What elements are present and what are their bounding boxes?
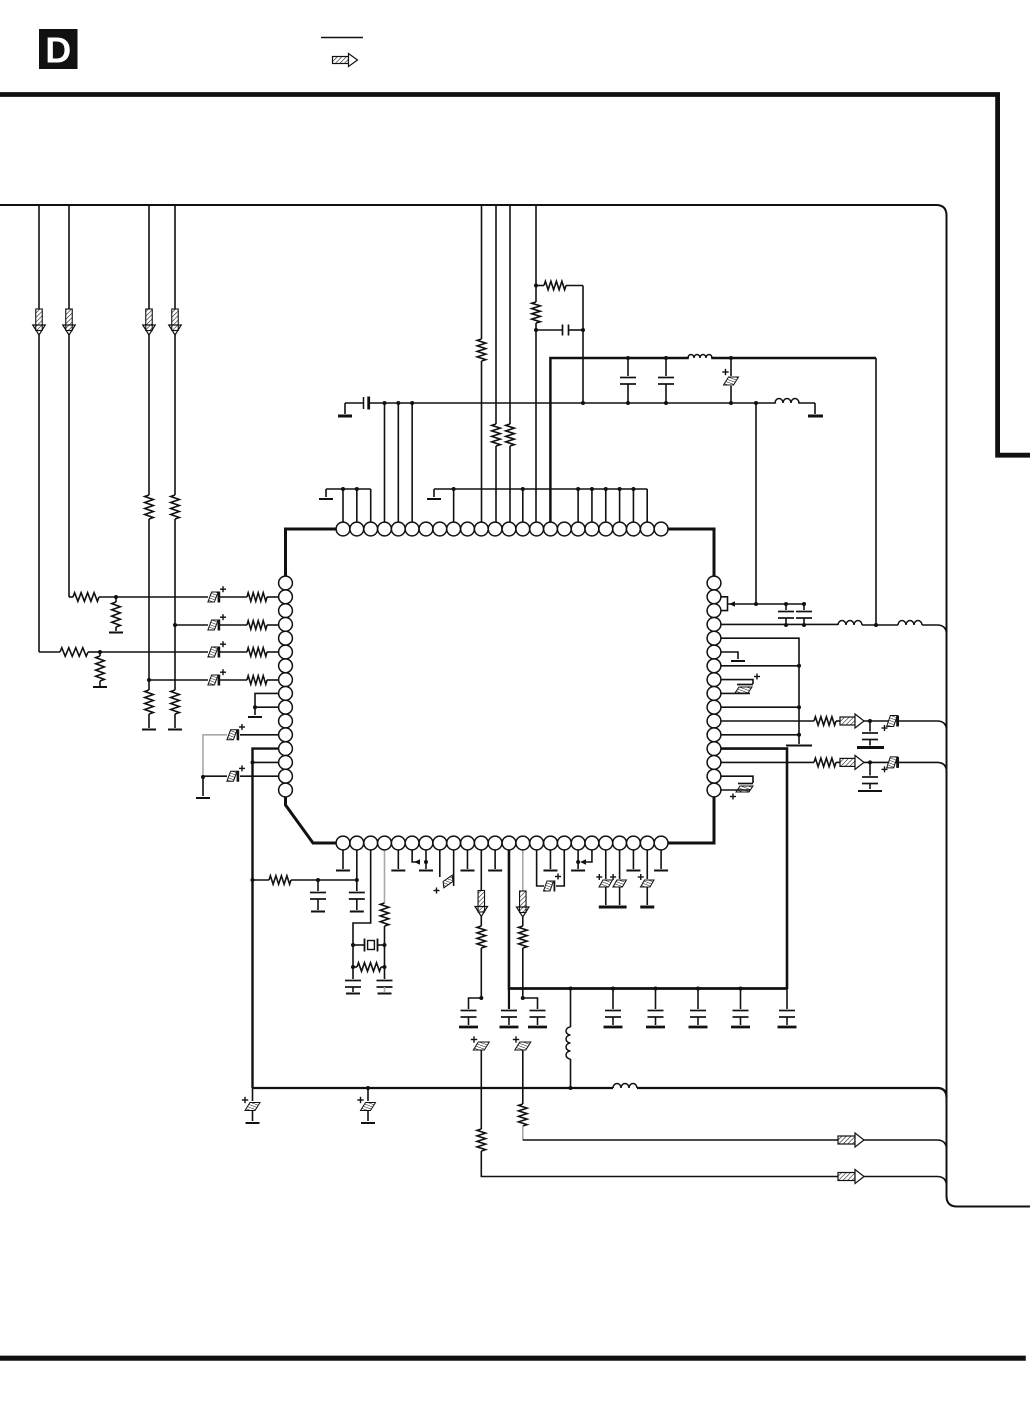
arrowhead into bracket [728,603,757,605]
wire to node N2 [99,596,116,598]
inductor L4 [899,623,921,627]
ground under bracket [248,716,262,718]
ground under C15 [858,790,882,792]
wire y604 rail with dots [756,603,804,605]
wire between inductors with junction [862,624,898,626]
inductor L1 on rail y403 [776,401,798,405]
capacitor C13 to ground [869,721,871,732]
inductor L6 on rail y1088 [613,1084,637,1089]
wire chain down across rail-1088 [480,1050,482,1129]
capacitor C2 (electrolytic) [208,592,218,602]
ground at left end of rail y403 [344,403,346,414]
wire R19 down to node [480,948,482,998]
dots on rail y358 [626,356,630,360]
wire bottom pin 6 jog to pin 7 stub [412,850,417,862]
ground manifold left group [325,489,327,497]
resistor R2 pulldown [99,652,101,656]
wire arrow to bus line A [864,721,947,731]
wire bottom pin 4 gray stub [383,850,385,903]
wire bottom pin 2 to rail y880 [356,850,358,880]
ground at right end of rail y403 (bold) [808,415,823,418]
ground under R4 [109,632,123,634]
signal arrow A4 (down) [172,309,179,331]
signal arrow A9 (down) [520,891,527,913]
section label D [39,29,78,69]
wire right pin 11 line A [714,720,814,722]
wire vertical to top pin 12 [495,205,497,424]
IC U1 bottom pin circles [336,836,350,850]
resistor R1 [60,648,88,657]
resistor R23 [247,648,267,657]
wire R16 to caps [291,879,357,881]
capacitor C24 (electrolytic) across bottom pins 8-9 [439,850,441,877]
resistor R15 [814,758,836,767]
junction dots manifold-L [341,487,345,491]
wire rail y1088 right part to bus [637,1088,947,1098]
capacitor C22 to ground [352,967,354,979]
junction dots on rail y403 [382,401,386,405]
wire vertical to top pin 13 [509,205,511,424]
wire rail y880 [253,879,270,881]
capacitor C14 (electrolytic) on line A [887,716,898,727]
wire supply bus: top rail into right bus with rounded corners [0,205,1030,1207]
capacitor C29 (electrolytic) series [515,1042,531,1050]
wire right pin 14 line B [714,761,814,763]
IC U1 right pin circles [707,576,721,590]
wire node x536 lower [535,323,537,523]
signal arrow A2 (down) [66,309,73,331]
capacitor C20 to ground [317,880,319,891]
wire node N4 to C4 [175,624,208,626]
wire gray jog to line y1140 [522,1126,524,1140]
capacitor C6 series on rail [345,402,363,404]
signal arrow A10 (right) [838,1136,855,1144]
wire C19 to ground node [203,775,227,777]
wire feed line 2 from top rail [68,205,70,310]
resistor R10 [492,424,501,446]
resistor R3 [73,593,99,602]
wire arrow to bus line B [864,762,947,772]
signal arrow A5 (right) [840,717,855,725]
resistor R26 [247,621,267,630]
resistor R8 pulldown [171,690,180,714]
wire R9 to pin [481,361,483,523]
wire bottom pin 13 bold to rail y989 [509,850,787,989]
wire bold rail y358 from top pin 16 [550,358,876,523]
signal arrow A7 (down) [478,891,485,913]
resistor R22 [519,1104,528,1126]
capacitor C8 [665,358,667,376]
wire C1 to left pin row 6 [219,651,247,653]
wire right pin 10 [714,706,799,708]
resistor R11 [506,424,515,446]
wire bottom pin 11 chain [480,850,482,891]
IC U1 top pin circles [336,522,350,536]
wire right pin 13 bold to rail 989 [714,749,787,989]
wire feed line 4 middle [174,334,176,495]
capacitor C51 (electrolytic) to ground at x368 [366,1086,370,1090]
capacitor C30 (electrolytic) across bottom pins 15-17 [537,850,544,886]
ground under node x203 [196,797,210,799]
capacitor C41 below rail y989 [655,989,657,1010]
capacitor C32 (electrolytic) pin 21 to ground [619,850,621,879]
junction dots manifold-R [452,487,456,491]
wire R21 to node [522,948,524,998]
wire feed line 3 below node [148,680,150,690]
capacitor C12 (electrolytic) across pins 8-9 [714,680,753,684]
ground under R6 [142,729,156,731]
wire R24 to pin [267,596,279,598]
resistor R18 across crystal [353,966,357,968]
capacitor C10 [785,604,787,610]
ground at x799 bottom [786,745,812,747]
capacitor C44 below rail y989 [786,989,788,1010]
capacitor C23 to ground [383,967,385,979]
signal arrow A1 (down) [36,309,43,331]
wire right pin 6 to ground [714,652,738,659]
wire feed line 4 to node N4 [174,519,176,625]
capacitor C5 [536,329,563,331]
wire right pin 5 to x799 [714,638,799,744]
resistor R20 [477,1129,486,1151]
wire feed line 4 below node [174,625,176,690]
signal arrow A6 (right) [840,758,855,766]
ground stubs on bottom pins [342,850,344,869]
crystal X1 [364,939,366,952]
wire rail y403 drops to top pins 4-6 [383,403,385,523]
junction dots on x799 [797,664,801,668]
wire arrow A8 to bus [864,1177,947,1187]
capacitor C17 (electrolytic) across pins 15-16 [714,776,753,783]
wire R23 to pin [267,651,279,653]
capacitor C26 (electrolytic) series [473,1042,489,1050]
wire right pin 7 [714,665,799,667]
capacitor C19 (electrolytic) on left pin 15 [240,775,286,777]
wire L4 to bus [922,625,947,635]
wire C3 to left pin row 8 [219,679,247,681]
wire x756 from rail y403 down [755,403,757,604]
capacitor C11 [803,604,805,610]
wire left pin 14 to bold vertical [253,761,286,763]
wire R10 to pin [495,446,497,523]
wire rail y403 [369,402,815,404]
inductor L3 [839,623,861,627]
wire bold rail y989 [509,987,787,990]
junction dots rail y989 [569,987,573,991]
wire C2 to left pin row 2 [219,596,247,598]
ground bold under C13 [857,746,884,749]
wire bottom pin 14 gray stub [522,850,524,892]
wire bottom pin 19 jog to pin 18 stub [583,850,592,862]
wire line y1140 to arrow [523,1139,838,1141]
capacitor C18 (electrolytic) on left pin 12 [240,734,286,736]
resistor R17 [380,903,389,926]
wire x583 vertical [582,286,584,404]
resistor R9 [477,339,486,361]
wire right pin 12 [714,734,799,736]
wire R11 to pin [509,446,511,523]
IC U1 left pin circles [279,576,293,590]
wire bracket right pins 2-3 [714,597,728,611]
wire node N1 to C-left [100,651,208,653]
page frame top-right border [0,95,1030,456]
capacitor C40 below rail y989 [612,989,614,1010]
capacitor C15 to ground [869,762,871,775]
capacitor C1 (electrolytic) [208,647,218,657]
inductor L2 on rail y358 [689,355,711,360]
reference line above arrow icon [321,37,363,39]
capacitor C33 (electrolytic) pin 23 to ground [646,850,648,879]
capacitor C4 (electrolytic) [208,620,218,630]
svg-text:D: D [45,30,71,71]
wire gray from C18 [203,735,227,777]
wire R14 to arrow [836,720,840,722]
wire x876 vertical to inductor node [875,358,877,625]
resistor R13 series [532,302,541,323]
wire arrow to R21 [522,916,524,926]
resistor R6 pulldown [145,690,154,714]
wire to node N1 [88,651,100,653]
IC U1 body outline [286,529,715,843]
wire feed line 3 from top rail [148,205,150,310]
wire bottom pin 3 to crystal left [353,850,371,945]
inductor L5 vertical [570,989,572,1028]
capacitor C27 below rail [508,989,510,1010]
capacitor C7 [627,358,629,376]
resistor R21 [519,926,528,948]
wire arrow A10 to bus [864,1140,947,1150]
page-link arrow icon [333,57,349,64]
wire feed line 2 lower [68,334,70,597]
wire vertical x536 from top rail [535,205,537,302]
wire R15 to arrow [836,761,840,763]
wires manifold-R to pins [453,489,455,523]
wire feed line 1 lower [38,334,40,652]
wires manifold-L to pins 1-2 [342,489,344,523]
capacitor C42 below rail y989 [697,989,699,1010]
ground manifold right group [433,489,435,497]
resistor R4 pulldown [115,597,117,602]
wire feed line 1 from top rail [38,205,40,310]
ground under R8 [168,729,182,731]
resistor R12 feedback top [536,285,544,287]
wire feed line 3 to node N3 [148,519,150,680]
resistor R24 [247,593,267,602]
page frame bottom border [0,1356,1026,1361]
wire R17 to crystal right [383,926,385,967]
capacitor C16 (electrolytic) on line B [887,757,898,768]
capacitor C50 (electrolytic) to ground at x252 [252,1088,254,1101]
resistor R16 [269,876,291,885]
signal arrow A8 (right) [838,1173,855,1181]
resistor R19 [477,926,486,948]
capacitor C28 to ground (bracket right) [523,998,538,1009]
wire C4 to left pin row 4 [219,624,247,626]
capacitor C43 below rail y989 [740,989,742,1010]
capacitor C31 (electrolytic) pin 20 to ground [605,850,607,879]
wire chain down to R22 [522,1050,524,1104]
capacitor C25 to ground (bracket left) [469,998,482,1009]
wire left pins 9-10 bracket to ground [255,693,286,707]
capacitor C9 (electrolytic) between rails [730,358,732,376]
wire crystal left down [352,945,354,967]
capacitor C21 to ground [356,880,358,891]
resistor R5 series [145,495,154,519]
wire vertical to top pin 11 [481,205,483,339]
wire feed line 3 middle [148,334,150,495]
wire R25 to pin [267,679,279,681]
wire right pin 4 y625 line [714,623,838,625]
wire R26 to pin [267,624,279,626]
ground under R2 [93,686,107,688]
resistor R14 [814,717,836,726]
resistor R25 [247,676,267,685]
wire node N3 to C3 [149,679,208,681]
wire left pin 13 bold [253,749,286,1088]
wire rail y403 right end to ground [814,403,816,414]
capacitor C3 (electrolytic) [208,675,218,685]
wire rail y1088 [253,1087,614,1089]
wire feed line 4 from top rail [174,205,176,310]
wire R20 to line y1176 [481,1151,838,1177]
wire node N2 to C2 [116,596,208,598]
resistor R7 series [171,495,180,519]
wire arrow to R19 [480,916,482,926]
signal arrow A3 (down) [146,309,153,331]
